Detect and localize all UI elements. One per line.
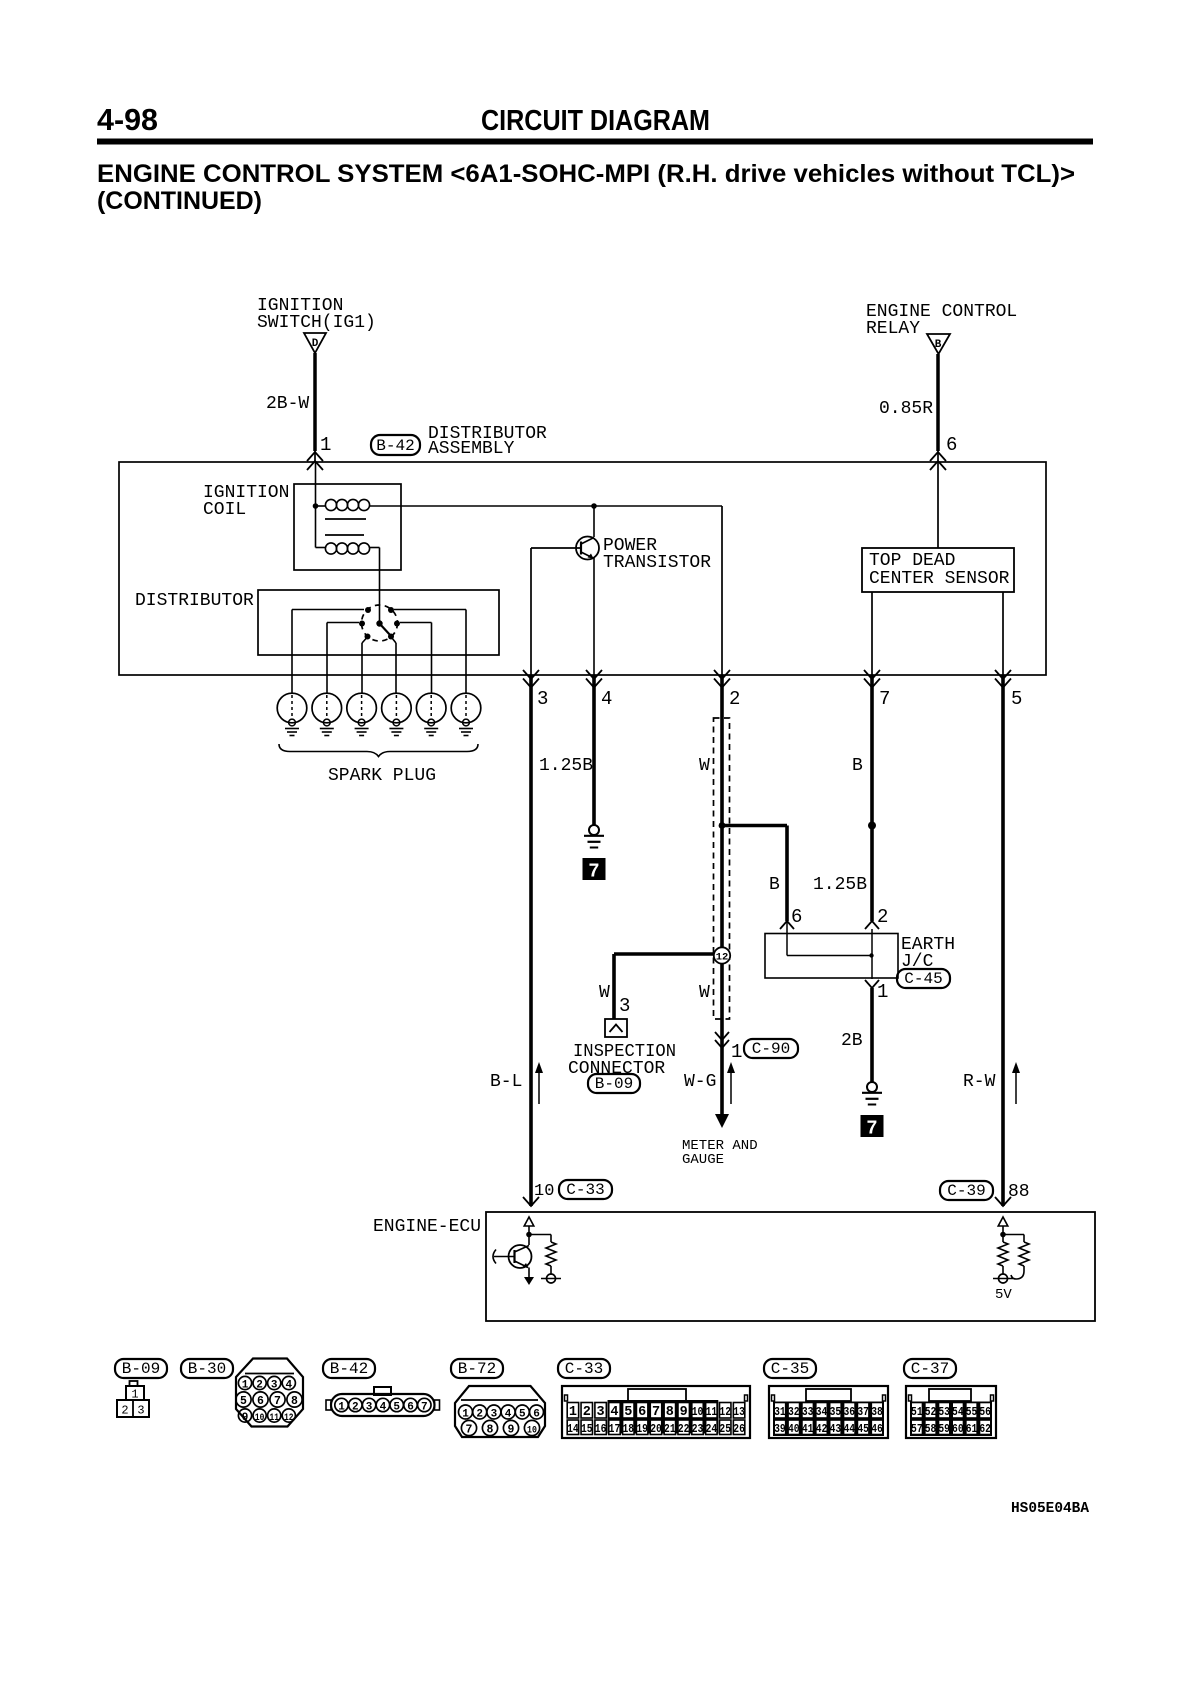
svg-text:6: 6 [257, 1395, 264, 1408]
svg-text:33: 33 [802, 1405, 814, 1419]
svg-text:B-09: B-09 [122, 1360, 160, 1378]
svg-text:3: 3 [366, 1402, 373, 1414]
svg-text:10: 10 [527, 1425, 537, 1437]
svg-text:19: 19 [636, 1422, 648, 1436]
svg-text:CIRCUIT DIAGRAM: CIRCUIT DIAGRAM [481, 105, 710, 137]
svg-text:7: 7 [274, 1395, 281, 1408]
svg-text:6: 6 [791, 906, 802, 928]
svg-text:1: 1 [338, 1402, 345, 1414]
svg-text:12: 12 [719, 1405, 731, 1419]
svg-text:5: 5 [393, 1402, 400, 1414]
svg-text:8: 8 [291, 1395, 298, 1408]
svg-text:W: W [599, 983, 610, 1003]
svg-text:W: W [699, 756, 710, 776]
svg-text:26: 26 [733, 1422, 745, 1436]
svg-text:3: 3 [491, 1409, 498, 1421]
svg-text:1: 1 [569, 1405, 577, 1420]
svg-text:W: W [699, 983, 710, 1003]
svg-text:ASSEMBLY: ASSEMBLY [428, 439, 515, 459]
svg-text:7: 7 [421, 1402, 428, 1414]
svg-text:SWITCH(IG1): SWITCH(IG1) [257, 313, 376, 333]
svg-text:38: 38 [871, 1405, 883, 1419]
svg-text:B-09: B-09 [595, 1075, 633, 1093]
svg-text:RELAY: RELAY [866, 319, 920, 339]
svg-text:16: 16 [595, 1422, 607, 1436]
svg-text:5: 5 [519, 1409, 526, 1421]
svg-text:13: 13 [733, 1405, 745, 1419]
svg-text:HS05E04BA: HS05E04BA [1011, 1501, 1089, 1517]
svg-text:23: 23 [692, 1422, 704, 1436]
svg-text:3: 3 [597, 1405, 605, 1420]
svg-text:21: 21 [664, 1422, 676, 1436]
svg-text:C-35: C-35 [771, 1360, 809, 1378]
svg-text:43: 43 [830, 1422, 842, 1436]
svg-text:1: 1 [877, 981, 888, 1003]
svg-text:57: 57 [911, 1422, 923, 1436]
svg-text:60: 60 [952, 1422, 964, 1436]
svg-text:4-98: 4-98 [97, 102, 158, 137]
svg-text:1: 1 [320, 434, 331, 456]
svg-text:2: 2 [877, 906, 888, 928]
svg-text:1: 1 [462, 1409, 469, 1421]
svg-text:C-33: C-33 [566, 1181, 604, 1199]
svg-text:4: 4 [601, 688, 612, 710]
svg-text:7: 7 [879, 688, 890, 710]
svg-text:GAUGE: GAUGE [682, 1152, 724, 1168]
svg-text:8: 8 [666, 1405, 674, 1420]
svg-text:B-42: B-42 [376, 437, 414, 455]
svg-text:54: 54 [952, 1405, 964, 1419]
svg-text:C-37: C-37 [911, 1360, 949, 1378]
svg-text:B-42: B-42 [330, 1360, 368, 1378]
svg-text:4: 4 [505, 1409, 512, 1421]
svg-text:W-G: W-G [684, 1072, 716, 1092]
svg-text:B: B [935, 339, 942, 351]
svg-text:14: 14 [567, 1422, 579, 1436]
svg-text:42: 42 [816, 1422, 828, 1436]
svg-text:18: 18 [623, 1422, 635, 1436]
svg-text:6: 6 [407, 1402, 414, 1414]
svg-text:52: 52 [925, 1405, 937, 1419]
svg-text:45: 45 [857, 1422, 869, 1436]
svg-text:4: 4 [380, 1402, 387, 1414]
svg-text:5V: 5V [995, 1287, 1012, 1303]
svg-text:17: 17 [609, 1422, 621, 1436]
svg-text:7: 7 [866, 1118, 877, 1140]
svg-text:46: 46 [871, 1422, 883, 1436]
svg-text:2: 2 [476, 1409, 483, 1421]
svg-text:1.25B: 1.25B [813, 875, 867, 895]
svg-text:R-W: R-W [963, 1072, 996, 1092]
svg-text:20: 20 [650, 1422, 662, 1436]
svg-text:31: 31 [774, 1405, 786, 1419]
svg-text:55: 55 [966, 1405, 978, 1419]
svg-text:C-39: C-39 [947, 1182, 985, 1200]
svg-text:B-30: B-30 [188, 1360, 226, 1378]
svg-text:11: 11 [706, 1405, 718, 1419]
svg-text:5: 5 [240, 1395, 247, 1408]
svg-text:7: 7 [466, 1424, 473, 1437]
svg-text:59: 59 [938, 1422, 950, 1436]
svg-text:6: 6 [533, 1409, 540, 1421]
svg-text:1.25B: 1.25B [539, 756, 593, 776]
svg-text:3: 3 [137, 1404, 144, 1418]
svg-text:3: 3 [619, 995, 630, 1017]
svg-text:DISTRIBUTOR: DISTRIBUTOR [135, 591, 254, 611]
svg-text:62: 62 [979, 1422, 991, 1436]
svg-text:B-L: B-L [490, 1072, 522, 1092]
svg-text:TRANSISTOR: TRANSISTOR [603, 553, 711, 573]
svg-text:4: 4 [285, 1380, 292, 1392]
svg-text:4: 4 [610, 1405, 618, 1420]
svg-text:B-72: B-72 [458, 1360, 496, 1378]
svg-text:9: 9 [242, 1412, 249, 1424]
svg-text:3: 3 [537, 688, 548, 710]
svg-text:7: 7 [652, 1405, 660, 1420]
svg-text:12: 12 [284, 1412, 294, 1423]
svg-text:44: 44 [844, 1422, 856, 1436]
svg-text:56: 56 [979, 1405, 991, 1419]
svg-text:10: 10 [255, 1412, 265, 1423]
svg-text:1: 1 [731, 1041, 742, 1063]
svg-text:22: 22 [678, 1422, 690, 1436]
svg-text:24: 24 [706, 1422, 718, 1436]
svg-text:88: 88 [1008, 1182, 1030, 1202]
svg-text:D: D [312, 338, 319, 350]
svg-text:2: 2 [352, 1402, 359, 1414]
svg-text:C-45: C-45 [904, 970, 942, 988]
svg-text:2: 2 [729, 688, 740, 710]
svg-text:6: 6 [638, 1405, 646, 1420]
svg-text:9: 9 [680, 1405, 688, 1420]
svg-text:8: 8 [487, 1424, 494, 1437]
svg-text:ENGINE-ECU: ENGINE-ECU [373, 1217, 481, 1237]
svg-text:34: 34 [816, 1405, 828, 1419]
svg-text:10: 10 [692, 1405, 704, 1419]
svg-text:51: 51 [911, 1405, 923, 1419]
svg-text:TOP DEAD: TOP DEAD [869, 551, 955, 571]
svg-text:5: 5 [1011, 688, 1022, 710]
svg-text:61: 61 [966, 1422, 978, 1436]
svg-text:11: 11 [269, 1412, 279, 1423]
svg-text:12: 12 [716, 952, 729, 964]
svg-text:32: 32 [788, 1405, 800, 1419]
svg-text:B: B [852, 756, 863, 776]
svg-text:C-33: C-33 [565, 1360, 603, 1378]
svg-text:COIL: COIL [203, 500, 246, 520]
svg-text:6: 6 [946, 434, 957, 456]
svg-text:53: 53 [938, 1405, 950, 1419]
svg-text:2B-W: 2B-W [266, 394, 309, 414]
svg-text:B: B [769, 875, 780, 895]
svg-text:5: 5 [624, 1405, 632, 1420]
svg-text:2: 2 [121, 1404, 128, 1418]
svg-text:9: 9 [508, 1424, 515, 1437]
svg-text:35: 35 [830, 1405, 842, 1419]
svg-text:C-90: C-90 [752, 1040, 790, 1058]
svg-text:37: 37 [857, 1405, 869, 1419]
svg-text:SPARK PLUG: SPARK PLUG [328, 766, 436, 786]
svg-text:58: 58 [925, 1422, 937, 1436]
svg-text:25: 25 [719, 1422, 731, 1436]
svg-text:(CONTINUED): (CONTINUED) [97, 187, 262, 215]
svg-text:1: 1 [242, 1380, 249, 1392]
svg-text:39: 39 [774, 1422, 786, 1436]
svg-text:2: 2 [583, 1405, 591, 1420]
svg-text:2B: 2B [841, 1031, 863, 1051]
svg-text:7: 7 [588, 861, 599, 883]
svg-text:41: 41 [802, 1422, 814, 1436]
svg-text:15: 15 [581, 1422, 593, 1436]
svg-text:3: 3 [271, 1380, 278, 1392]
svg-text:36: 36 [844, 1405, 856, 1419]
svg-text:0.85R: 0.85R [879, 399, 933, 419]
svg-text:CENTER SENSOR: CENTER SENSOR [869, 569, 1010, 589]
svg-text:40: 40 [788, 1422, 800, 1436]
svg-text:2: 2 [256, 1380, 263, 1392]
svg-text:ENGINE CONTROL SYSTEM <6A1-: ENGINE CONTROL SYSTEM <6A1-SOHC-MPI (R.H… [97, 160, 1075, 188]
